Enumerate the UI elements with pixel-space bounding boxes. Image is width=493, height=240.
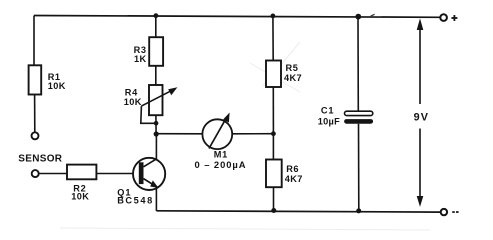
junction R5 top bbox=[271, 14, 276, 19]
speck artifact bbox=[370, 14, 375, 17]
svg-text:R5: R5 bbox=[286, 63, 299, 73]
trimmer R4 bbox=[124, 85, 178, 115]
svg-text:4K7: 4K7 bbox=[284, 73, 302, 83]
svg-text:9V: 9V bbox=[414, 111, 429, 123]
svg-text:10K: 10K bbox=[71, 191, 89, 201]
junction C1 top bbox=[355, 14, 361, 20]
svg-text:BC548: BC548 bbox=[117, 196, 154, 206]
wire sensor to R2 bbox=[39, 173, 67, 175]
wire collector vertical bbox=[155, 134, 157, 160]
junction wiper node bbox=[154, 121, 159, 126]
wire node to R6 bbox=[272, 134, 274, 160]
svg-text:1K: 1K bbox=[134, 54, 147, 64]
terminal + bbox=[440, 14, 447, 21]
svg-text:10K: 10K bbox=[48, 81, 66, 91]
minus sign bbox=[452, 211, 458, 213]
svg-text:R6: R6 bbox=[286, 164, 299, 174]
junction collector node bbox=[154, 131, 159, 136]
transistor Q1 bbox=[117, 158, 165, 206]
wire R3 column top bbox=[155, 16, 157, 37]
battery voltage arrow 9V bbox=[414, 18, 429, 207]
junction R5R6 mid node bbox=[271, 131, 276, 136]
svg-text:M1: M1 bbox=[214, 149, 228, 159]
svg-text:10µF: 10µF bbox=[318, 116, 340, 126]
terminal - bbox=[441, 209, 447, 215]
svg-text:R4: R4 bbox=[125, 88, 138, 98]
wire C1 to bottom rail bbox=[358, 124, 360, 211]
svg-text:10K: 10K bbox=[124, 97, 142, 107]
wire top rail bbox=[34, 16, 441, 18]
svg-text:C1: C1 bbox=[321, 106, 335, 116]
svg-text:SENSOR: SENSOR bbox=[18, 153, 63, 164]
resistor R6 bbox=[266, 160, 303, 188]
resistor R5 bbox=[266, 61, 302, 88]
scan artifact faint lines bbox=[60, 42, 430, 230]
wire left vertical lower bbox=[34, 94, 36, 132]
wire R6 to bottom rail bbox=[273, 187, 275, 210]
wire R3 to R4 bbox=[155, 66, 157, 85]
capacitor C1 bbox=[318, 106, 373, 127]
wire M1 to R5R6 column bbox=[232, 133, 273, 135]
junction R3 top bbox=[154, 13, 159, 18]
wire node to M1 bbox=[156, 133, 202, 135]
junction C1 bottom bbox=[356, 208, 361, 213]
wire emitter to bottom rail bbox=[155, 187, 157, 211]
wire R4 wiper return bbox=[141, 106, 157, 123]
wire R4 bottom to node bbox=[155, 115, 157, 134]
svg-text:4K7: 4K7 bbox=[285, 174, 303, 184]
plus sign bbox=[451, 15, 457, 21]
wire C1 column top bbox=[357, 16, 359, 111]
wire left vertical upper bbox=[33, 16, 35, 66]
resistor R3 bbox=[134, 37, 163, 66]
svg-text:0 – 200µA: 0 – 200µA bbox=[195, 159, 247, 170]
wire R5 column top bbox=[272, 16, 274, 61]
meter M1 bbox=[195, 113, 247, 171]
resistor R1 bbox=[29, 65, 66, 94]
wire bottom rail bbox=[156, 211, 441, 212]
wire R5 to node bbox=[272, 87, 274, 134]
wire R2 to base bbox=[96, 173, 138, 175]
resistor R2 bbox=[67, 165, 96, 202]
junction R6 bottom bbox=[271, 208, 276, 213]
sensor input terminal bbox=[32, 170, 39, 177]
terminal below R1 bbox=[32, 132, 39, 139]
